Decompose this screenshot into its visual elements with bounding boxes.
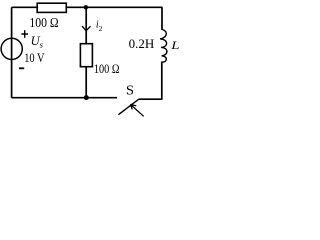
svg-text:0.2H: 0.2H bbox=[129, 36, 155, 51]
svg-text:Us: Us bbox=[31, 34, 44, 50]
resistor 100 ohm top (horizontal box) bbox=[37, 3, 66, 12]
resistor 100 ohm middle (vertical box) bbox=[80, 44, 92, 67]
svg-text:i2: i2 bbox=[96, 19, 103, 33]
voltage source Us circle bbox=[1, 38, 22, 59]
switch actuate arrow shaft bbox=[130, 104, 143, 116]
junction dot top node bbox=[84, 5, 88, 9]
current arrow i2 bbox=[82, 26, 91, 31]
svg-text:100 Ω: 100 Ω bbox=[94, 62, 120, 76]
svg-text:S: S bbox=[126, 83, 134, 99]
switch S blade bbox=[118, 99, 138, 115]
svg-text:100 Ω: 100 Ω bbox=[29, 15, 58, 30]
svg-text:10 V: 10 V bbox=[24, 51, 45, 65]
wire right branch lower bbox=[161, 62, 163, 100]
minus polarity mark bbox=[19, 67, 24, 69]
svg-text:L: L bbox=[170, 38, 179, 51]
wire bottom rail right bbox=[139, 98, 163, 100]
wire top rail bbox=[12, 6, 163, 8]
junction dot bottom node bbox=[84, 95, 89, 100]
switch arrow barb vertical bbox=[130, 104, 132, 109]
wire left branch bbox=[11, 7, 13, 97]
wire right branch bbox=[161, 7, 163, 30]
wire bottom rail left bbox=[12, 97, 118, 99]
inductor L coil bbox=[160, 30, 167, 62]
switch arrow barb horizontal bbox=[130, 104, 136, 106]
plus polarity mark bbox=[21, 30, 28, 37]
wire middle branch bbox=[85, 7, 87, 97]
